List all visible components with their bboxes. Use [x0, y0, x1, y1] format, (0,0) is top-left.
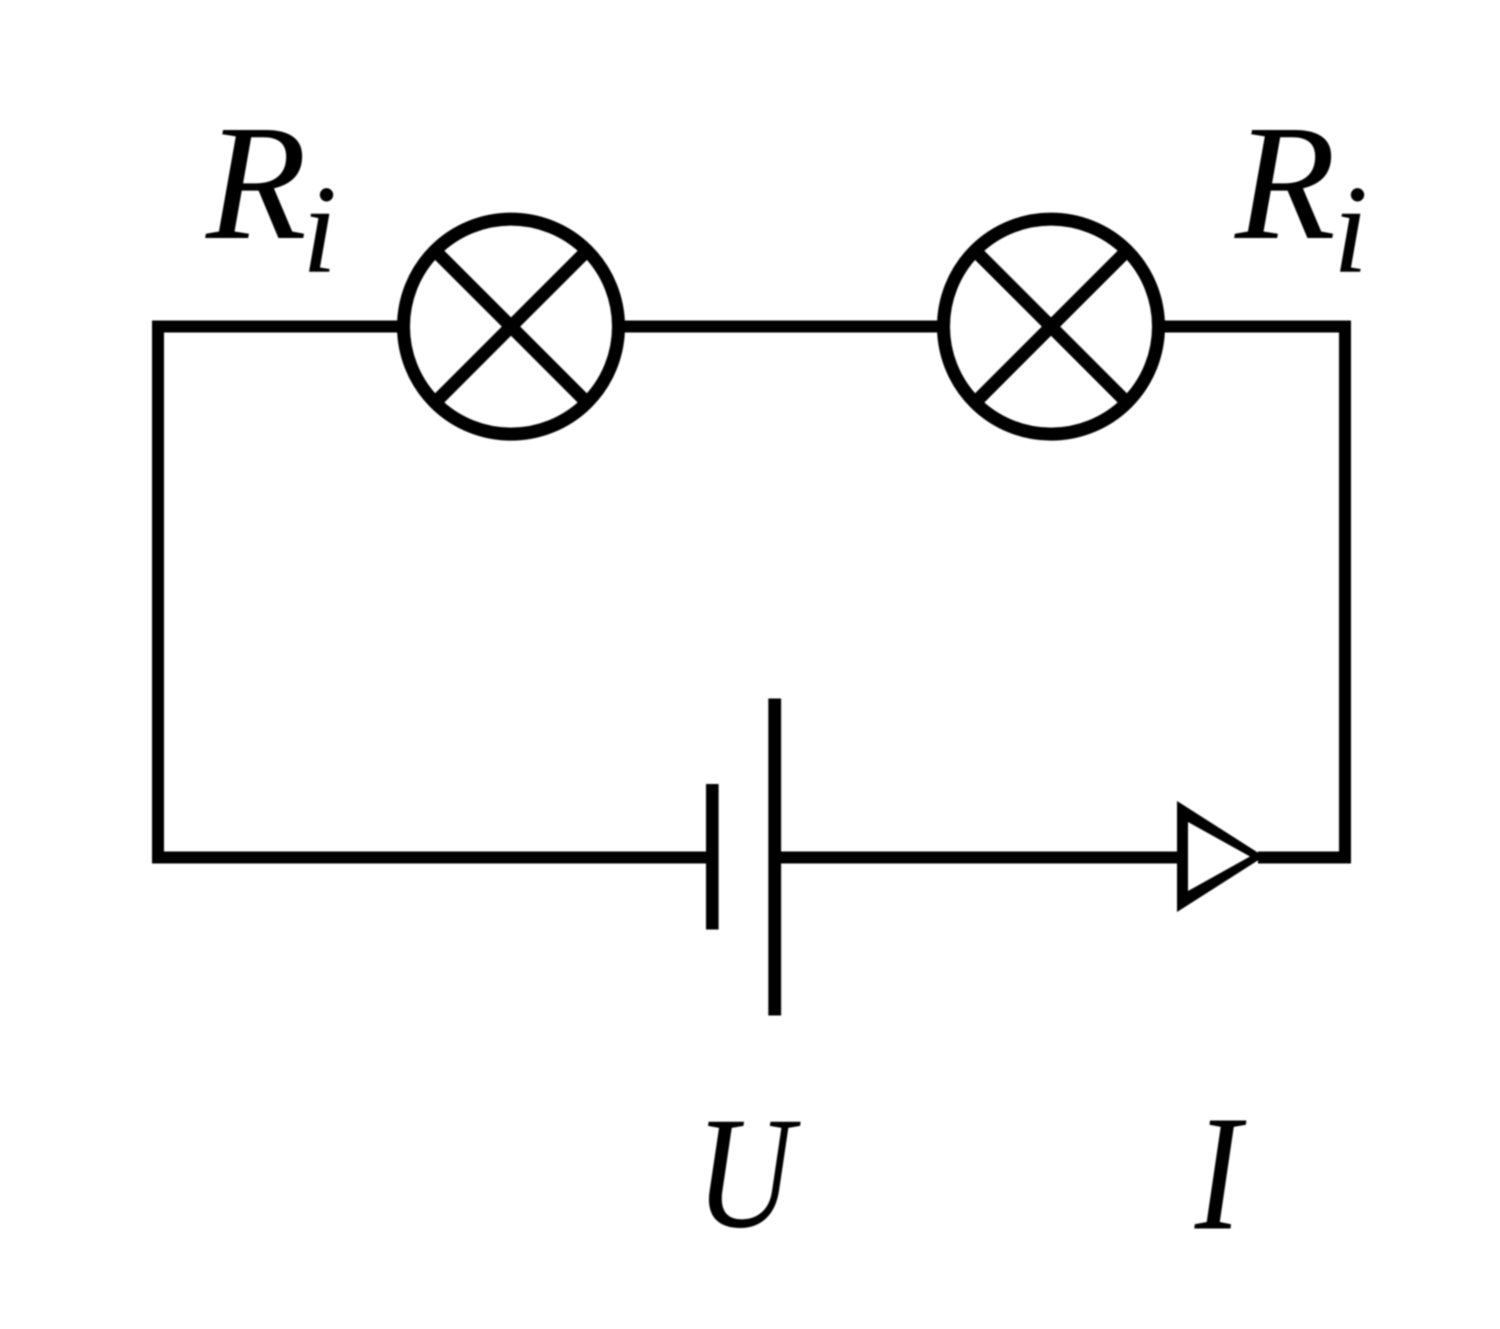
lamp X2 (right lamp, resistance Ri)	[944, 219, 1159, 434]
svg-text:I: I	[1194, 1081, 1247, 1264]
wire: left loop from lamp X1 around top-left and bottom-left corners to battery	[158, 327, 712, 858]
svg-text:U: U	[696, 1085, 802, 1262]
battery U: short negative plate	[706, 784, 719, 930]
svg-text:i: i	[1333, 161, 1368, 300]
svg-text:R: R	[205, 91, 307, 274]
svg-text:R: R	[1234, 91, 1336, 274]
lamp X1 (left lamp, resistance Ri)	[404, 219, 619, 434]
label Ri (right lamp)	[1234, 91, 1368, 300]
wire: bottom segment between battery and current arrow	[775, 852, 1180, 864]
current arrow I (open triangle pointing right)	[1177, 801, 1264, 912]
label Ri (left lamp)	[205, 91, 337, 300]
wire: right loop from lamp X2 around top-right and bottom-right corners to arrow tip	[1158, 327, 1345, 858]
wire: top segment between lamp X1 and lamp X2	[618, 321, 944, 333]
svg-text:i: i	[302, 161, 337, 300]
battery U: long positive plate	[768, 699, 781, 1016]
